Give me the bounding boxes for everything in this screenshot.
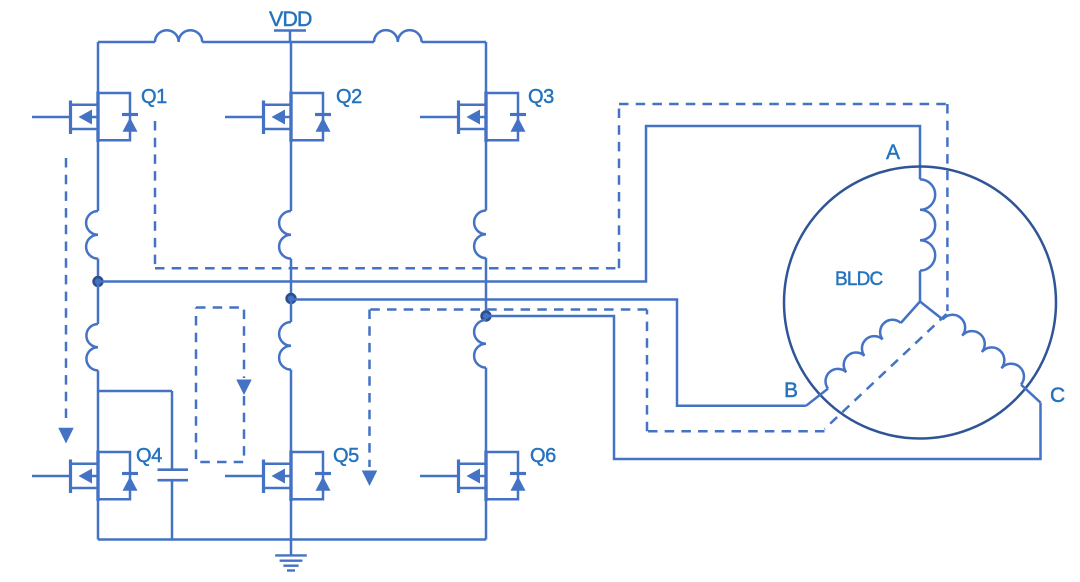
wire capacitor bottom lead bbox=[171, 480, 174, 539]
wire dashed horizontal toward Q5 bbox=[370, 308, 648, 311]
arrowhead current path 2 bbox=[58, 428, 74, 444]
wire coil to node 2 bbox=[290, 259, 293, 300]
transistor Q2 bbox=[225, 92, 331, 143]
svg-text:B: B bbox=[784, 379, 798, 402]
wire lower coil to Q6 drain bbox=[485, 368, 488, 452]
wire star point to winding B bbox=[901, 302, 920, 324]
wire top rail middle segment bbox=[202, 41, 374, 44]
svg-text:Q2: Q2 bbox=[336, 86, 362, 108]
wire dashed horizontal mid left bbox=[155, 267, 619, 270]
wire source Q4 to rail bbox=[97, 499, 100, 539]
wire star point to winding C bbox=[920, 302, 943, 320]
wire dashed diagonal through motor bbox=[825, 314, 947, 429]
node 1 junction dot bbox=[94, 277, 103, 286]
node 2 junction dot bbox=[287, 294, 296, 303]
transistor Q3 bbox=[420, 92, 526, 143]
svg-text:Q4: Q4 bbox=[136, 445, 162, 467]
wire dashed vertical right bbox=[946, 104, 949, 311]
wire capacitor branch top bbox=[98, 390, 172, 393]
svg-text:A: A bbox=[886, 141, 900, 164]
node 3 junction dot bbox=[482, 312, 491, 321]
inductor phase-2 upper coil bbox=[279, 211, 291, 259]
wire source Q6 to rail bbox=[485, 499, 488, 539]
wire source Q2 to coil bbox=[290, 141, 293, 212]
dashed current path 2 (left, Q1 to Q4) bbox=[65, 158, 68, 424]
winding A coil bbox=[920, 179, 935, 270]
winding C coil bbox=[943, 315, 1024, 385]
svg-text:Q6: Q6 bbox=[530, 445, 556, 467]
inductor L2 (top rail right) bbox=[374, 30, 422, 42]
svg-text:VDD: VDD bbox=[269, 7, 312, 31]
wire phase C: node 3 to motor bbox=[486, 316, 1041, 459]
wire lower coil to Q5 drain bbox=[290, 370, 293, 452]
power VDD symbol bbox=[274, 31, 306, 43]
wire source Q1 to coil bbox=[97, 141, 100, 212]
wire dashed vertical up bbox=[618, 104, 621, 268]
wire drain Q3 bbox=[485, 42, 488, 93]
wire phase A: node 1 to motor bbox=[98, 126, 920, 282]
transistor Q1 bbox=[32, 92, 138, 143]
wire drain Q1 bbox=[97, 42, 100, 93]
dashed current loop 3 (around Q4/C1) bbox=[196, 308, 244, 463]
svg-text:BLDC: BLDC bbox=[835, 269, 883, 290]
transistor Q6 bbox=[420, 451, 526, 502]
inductor phase-3 lower coil bbox=[474, 320, 486, 368]
transistor Q5 bbox=[225, 451, 331, 502]
wire source Q3 to coil bbox=[485, 141, 488, 211]
dashed current path 1 (Q1 through motor to Q5) bbox=[155, 104, 947, 467]
inductor phase-1 upper coil bbox=[86, 211, 98, 259]
wire dashed horizontal top bbox=[619, 103, 947, 106]
inductor L1 (top rail left) bbox=[155, 30, 202, 42]
wire source Q5 to rail bbox=[290, 499, 293, 539]
wire drain Q2 bbox=[290, 42, 293, 93]
wire phase B: node 2 to motor bbox=[291, 300, 806, 406]
wire node 1 to lower coil bbox=[97, 282, 100, 325]
ground bbox=[290, 540, 293, 556]
wire node 2 to lower coil bbox=[290, 300, 293, 323]
wire coil to node 3 bbox=[485, 258, 488, 316]
wire bottom rail bbox=[98, 538, 486, 541]
capacitor C1 bbox=[158, 470, 189, 481]
wire winding A to star point bbox=[919, 271, 922, 302]
inductor phase-1 lower coil bbox=[86, 324, 98, 370]
svg-text:C: C bbox=[1050, 384, 1065, 407]
wire lower coil to Q4 drain bbox=[97, 370, 100, 452]
wire capacitor top lead bbox=[171, 391, 174, 470]
motor BLDC stator circle bbox=[784, 167, 1056, 439]
wire top rail left segment bbox=[98, 41, 155, 44]
wire winding B to terminal B bbox=[806, 389, 828, 406]
wire dashed vertical down to Q5 bbox=[368, 310, 371, 468]
svg-text:Q1: Q1 bbox=[141, 86, 167, 108]
wire winding C to terminal C bbox=[1021, 385, 1041, 403]
wire top rail right segment bbox=[422, 41, 486, 44]
arrowhead current loop 3 bbox=[236, 380, 252, 396]
inductor phase-3 upper coil bbox=[474, 211, 486, 259]
svg-text:Q3: Q3 bbox=[528, 86, 554, 108]
wire dashed vertical up to row bbox=[646, 310, 649, 432]
winding B coil bbox=[826, 320, 901, 389]
svg-text:Q5: Q5 bbox=[333, 445, 359, 467]
wire dashed vertical near Q1 bbox=[154, 121, 157, 268]
arrowhead current path 1 bbox=[362, 471, 378, 487]
transistor Q4 bbox=[32, 451, 138, 502]
wire coil to node 1 bbox=[97, 259, 100, 282]
wire dashed horizontal return bbox=[647, 430, 825, 433]
inductor phase-2 lower coil bbox=[279, 322, 291, 370]
